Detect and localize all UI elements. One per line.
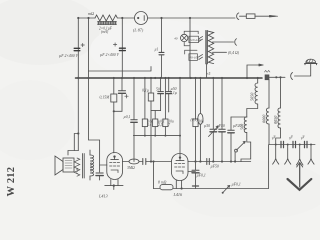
svg-text:µ50: µ50 [204,124,210,128]
svg-text:0000: 0000 [262,114,267,123]
svg-text:NO AN: NO AN [89,161,93,173]
svg-text:µ1: µ1 [155,48,159,52]
svg-text:µ50: µ50 [171,87,177,91]
svg-text:L416: L416 [173,192,184,197]
svg-text:mΩ: mΩ [88,11,94,16]
svg-text:5050: 5050 [250,92,255,101]
svg-text:8 mΩ: 8 mΩ [158,180,167,184]
svg-text:(L 87): (L 87) [133,28,144,33]
svg-text:W 212: W 212 [6,167,17,197]
svg-text:0050: 0050 [273,115,278,124]
svg-text:7: 7 [168,123,170,127]
svg-text:10a: 10a [198,120,204,124]
svg-text:50: 50 [156,88,160,92]
svg-text:µF50: µF50 [217,124,225,128]
svg-text:+5: +5 [206,72,211,76]
svg-text:110-240: 110-240 [190,38,201,42]
svg-text:µF 2×400 V: µF 2×400 V [100,53,120,57]
svg-text:µF50: µF50 [211,165,219,169]
svg-text:40-100: 40-100 [189,55,199,59]
svg-text:µF 2×400 V: µF 2×400 V [59,54,79,58]
svg-text:40: 40 [174,37,178,41]
svg-text:(mA): (mA) [101,30,109,34]
svg-text:Feld: Feld [75,167,79,175]
svg-text:500: 500 [239,123,244,130]
svg-text:14: 14 [148,123,152,127]
svg-text:3MΩ: 3MΩ [127,166,135,170]
svg-text:L413: L413 [98,194,108,199]
